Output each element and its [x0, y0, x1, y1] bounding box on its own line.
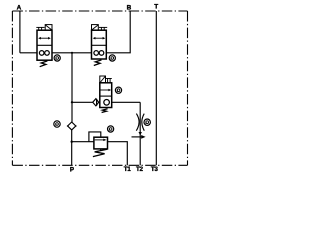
node T3 label [151, 166, 159, 173]
valve V3 arrow [100, 89, 109, 91]
wire A to valve V1 [20, 52, 37, 54]
filter F1 on P line [68, 122, 76, 130]
svg-text:T3: T3 [151, 166, 159, 173]
check valve CV1 [93, 99, 99, 106]
wire P vertical line [71, 53, 73, 122]
throttle valve FC1 down arrow [139, 132, 142, 136]
junction to check valve [71, 101, 73, 103]
wire to check valve [72, 101, 93, 103]
relief valve RV1 internal arrow [95, 139, 105, 141]
valve V3 solenoid box [100, 76, 106, 83]
junction P branch [71, 52, 73, 54]
wire check valve to V3 [99, 101, 100, 103]
wire T line vertical [155, 11, 157, 165]
valve V3 spring [102, 109, 108, 113]
node T2 label [136, 166, 144, 173]
wire A port line [19, 11, 21, 53]
wire to relief valve [72, 141, 95, 143]
valve V1 manual override [36, 26, 44, 28]
valve V2 spring [94, 60, 102, 66]
relief valve RV1 spring [93, 149, 107, 156]
svg-text:A: A [17, 4, 22, 11]
wire V1 to V2 [52, 52, 92, 54]
valve V2 manual override [99, 26, 107, 28]
throttle valve FC1 arcs [136, 114, 139, 131]
valve V1 spring [40, 61, 48, 67]
balloon 5 [54, 121, 60, 127]
valve V2 orifice circles [94, 51, 99, 56]
valve V3 body (2-position) [100, 83, 112, 108]
svg-text:P: P [70, 166, 74, 173]
node T1 label [124, 166, 132, 173]
junction relief branch [71, 141, 73, 143]
valve V2 arrow both ways [94, 37, 104, 39]
balloon 3 [115, 87, 121, 93]
node T label [154, 4, 158, 11]
svg-text:T2: T2 [136, 166, 144, 173]
relief valve RV1 body [94, 137, 108, 149]
svg-text:B: B [127, 4, 132, 11]
valve V3 manual override [106, 78, 112, 80]
valve V1 solenoid box [45, 25, 52, 31]
node B label [127, 4, 132, 11]
relief valve RV1 drain stub [100, 149, 102, 151]
valve V1 arrow both ways [40, 37, 50, 39]
enclosure dash-dot border [12, 11, 187, 165]
wire relief to T1 [107, 142, 127, 166]
svg-text:T1: T1 [124, 166, 132, 173]
wire B port line [106, 11, 130, 53]
valve V2 solenoid box [92, 25, 99, 31]
relief valve RV1 pilot path [89, 132, 101, 142]
svg-text:T: T [154, 4, 158, 11]
balloon 4 [144, 119, 150, 125]
wire V3 to throttle [112, 101, 141, 103]
balloon 1 [54, 55, 60, 61]
valve V3 orifice circle [104, 100, 110, 106]
throttle valve FC1 outlet arrow [132, 136, 142, 138]
balloon 2 [109, 55, 115, 61]
valve V1 body (2-position) [37, 30, 52, 60]
node A label [17, 4, 22, 11]
balloon 6 [108, 126, 114, 132]
valve V1 orifice circles [39, 51, 44, 56]
wire P line lower [71, 130, 73, 165]
valve V2 body (2-position) [92, 30, 107, 59]
node P label [70, 166, 74, 173]
wire throttle vertical line T2 [139, 102, 141, 165]
